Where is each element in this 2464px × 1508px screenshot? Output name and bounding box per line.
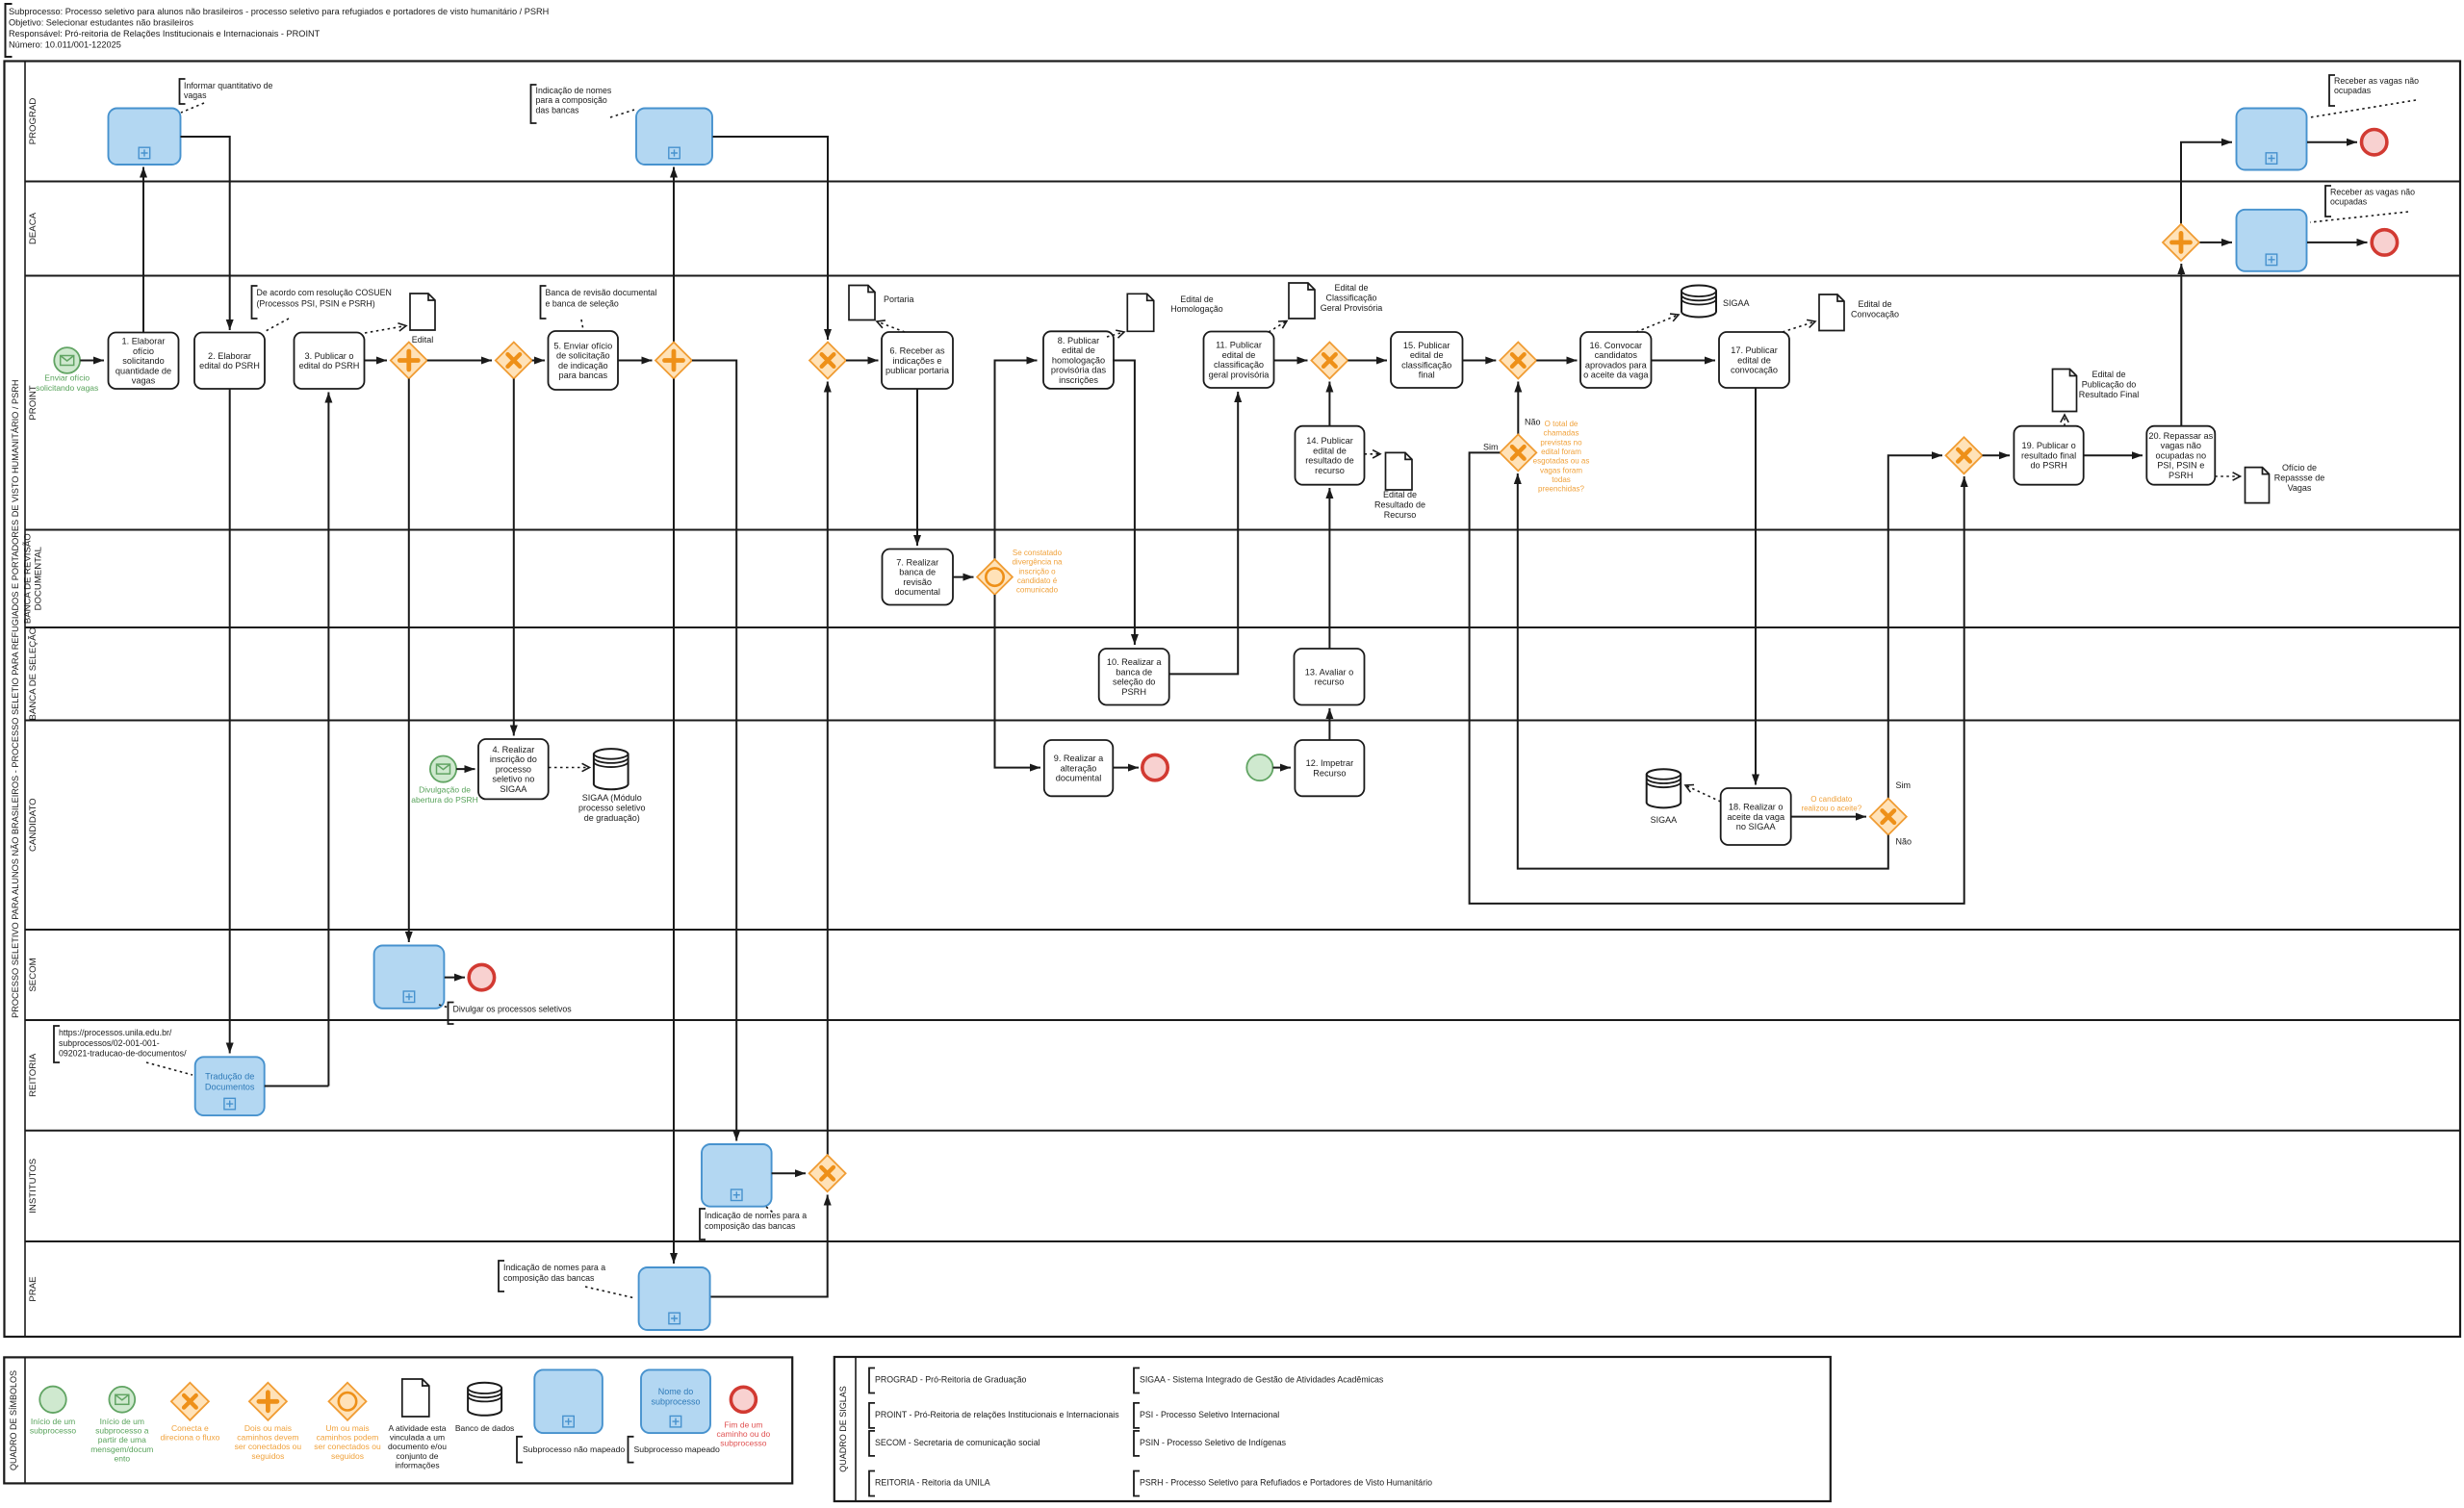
task 1. Elaborar oficio solicitando quantidade de vagas: [109, 333, 179, 390]
task 7. Realizar banca de revisao documental: [883, 550, 954, 605]
gateway X 6 (merge before task 19): [1946, 437, 1983, 473]
gateway inclusive O (divergencia): [977, 559, 1013, 595]
wire: task 10 elbow up into task 11: [1169, 392, 1239, 674]
wire: task 13 up into task 14: [1328, 488, 1330, 649]
document Edital de Homologacao: [1127, 294, 1153, 331]
task 10. Realizar a banca de selecao do PSRH: [1099, 649, 1169, 705]
legend end event: [731, 1387, 756, 1412]
annotation: Indicacao de nomes para a composicao das bancas (PRAE): [499, 1261, 504, 1291]
wire: subprocess 3 to end event: [2307, 141, 2357, 143]
svg-text:9. Realizar aalteraçãodocument: 9. Realizar aalteraçãodocumental: [1054, 754, 1104, 783]
svg-text:3. Publicar oedital do PSRH: 3. Publicar oedital do PSRH: [299, 351, 360, 371]
wire: X 7 Nao down-left-up into X 5: [1518, 473, 1888, 869]
end event DEACA: [2372, 230, 2397, 255]
svg-text:Se constatadodivergência nains: Se constatadodivergência nainscrição oca…: [1012, 549, 1063, 595]
legend gateway X: [171, 1383, 209, 1420]
wire: task 16 to task 17: [1652, 360, 1716, 362]
wire: REITORIA subprocess up into task 3: [327, 393, 329, 1086]
svg-text:DEACA: DEACA: [28, 212, 38, 244]
wire: PROGRAD subprocess 2 right-down to X2 gateway: [713, 137, 829, 340]
gateway X 7 (o candidato realizou o aceite?): [1870, 799, 1907, 835]
sigla entry: REITORIA: [869, 1471, 875, 1496]
wire: task 6 down to task 7: [916, 389, 918, 546]
gateway X 4: [1500, 343, 1536, 379]
svg-text:QUADRO DE SÍMBOLOS: QUADRO DE SÍMBOLOS: [9, 1370, 18, 1470]
wire: task20 up into DEACA plus gateway: [2180, 264, 2182, 426]
wire: plus 2 right-down to INSTITUTOS subprocess: [692, 361, 736, 1141]
association dotted: link annotation to REITORIA subprocess: [146, 1062, 192, 1075]
subprocess PROGRAD 3: receber as vagas nao ocupadas (blue): [2237, 109, 2307, 170]
legend gateway plus: [249, 1383, 287, 1420]
association dotted: annotation to DEACA subprocess: [2310, 212, 2408, 222]
document Portaria: [849, 286, 875, 320]
subprocess PROGRAD: informar quantitativo de vagas (blue): [109, 109, 181, 166]
document Oficio de Repassse de Vagas: [2246, 468, 2270, 503]
svg-text:Fim de umcaminho ou dosubproce: Fim de umcaminho ou dosubprocesso: [717, 1420, 771, 1448]
legend message start event: [109, 1387, 135, 1413]
association dotted: annotation to subprocess: [181, 103, 204, 113]
wire: X 2 to task 6: [846, 360, 879, 362]
svg-text:SIGAA: SIGAA: [1651, 815, 1678, 825]
gateway plus 2 (three-way split): [655, 343, 692, 379]
association dotted: annotation to subprocess 2: [610, 110, 634, 117]
gateway X 1: [496, 343, 532, 379]
wire: task 14 up into X 3: [1328, 382, 1330, 426]
svg-text:QUADRO DE SIGLAS: QUADRO DE SIGLAS: [838, 1386, 848, 1472]
svg-text:Número: 10.011/001-122025: Número: 10.011/001-122025: [9, 40, 121, 50]
document Edital de Resultado de Recurso: [1386, 452, 1413, 490]
svg-text:Responsável: Pró-reitoria de R: Responsável: Pró-reitoria de Relações In…: [9, 29, 321, 38]
svg-text:PROGRAD: PROGRAD: [28, 98, 38, 145]
wire: task1 up to PROGRAD subprocess: [142, 167, 144, 333]
wire: X 6 to task 19: [1983, 454, 2011, 456]
task 6. Receber as indicacoes e publicar portaria: [882, 332, 953, 389]
svg-text:PROINT - Pró-Reitoria de relaç: PROINT - Pró-Reitoria de relações Instit…: [875, 1410, 1119, 1419]
svg-text:SIGAA: SIGAA: [1723, 298, 1750, 308]
start event: Enviar oficio solicitando vagas (message): [54, 347, 80, 373]
task 5. Enviar oficio de solicitacao de indicacao para bancas: [549, 331, 619, 390]
association dotted: PRAE annotation to subprocess: [585, 1287, 635, 1298]
wire: X 5 Sim left-down-right-up into X 6: [1470, 452, 1964, 904]
gateway X 5 (total de chamadas?): [1500, 434, 1536, 471]
subprocess INSTITUTOS (blue): [702, 1144, 772, 1207]
task 11. Publicar edital de classificacao geral provisoria: [1204, 332, 1274, 389]
association dotted: task 8 to Edital de Homologacao: [1107, 332, 1124, 337]
wire: task 18 to X 7: [1791, 816, 1866, 818]
svg-text:11. Publicaredital declassific: 11. Publicaredital declassificaçãogeral …: [1209, 341, 1270, 380]
svg-text:8. Publicaredital dehomologaçã: 8. Publicaredital dehomologaçãoprovisóri…: [1051, 336, 1107, 385]
database SIGAA (PROINT): [1681, 286, 1716, 318]
association dotted: task 18 to SIGAA database: [1685, 785, 1721, 802]
document Edital de Publicacao do Resultado Final: [2053, 370, 2077, 412]
subprocess PROGRAD 2: indicacao de nomes (blue): [636, 109, 712, 166]
wire: X 1 down to task 4: [513, 379, 515, 736]
gateway plus 1 (PROINT split): [391, 343, 427, 379]
header bracket: [6, 4, 13, 57]
legend subprocess not mapped (blue): [534, 1369, 603, 1433]
task 2. Elaborar edital do PSRH: [194, 333, 265, 390]
task 14. Publicar edital de resultado de recurso: [1296, 426, 1365, 485]
wire: X 7 Sim up-right into X 6: [1888, 455, 1942, 798]
association dotted: task 19 up to Edital de Publicacao: [2064, 415, 2066, 426]
wire: task 15 to X 4: [1463, 360, 1497, 362]
gateway X INSTITUTOS: [809, 1155, 846, 1191]
wire: X 4 to task 16: [1536, 360, 1577, 362]
annotation: Banca de revisao documental e banca de selecao: [541, 286, 547, 319]
task 16. Convocar candidatos aprovados para o aceite da vaga: [1580, 332, 1652, 388]
svg-text:Início de umsubprocesso: Início de umsubprocesso: [30, 1417, 76, 1436]
siglas legend box: [834, 1357, 1831, 1501]
svg-text:De acordo com resolução COSUEN: De acordo com resolução COSUEN(Processos…: [257, 288, 392, 309]
svg-text:Portaria: Portaria: [884, 294, 914, 304]
sigla entry: PROINT: [869, 1403, 875, 1428]
svg-text:Subprocesso mapeado: Subprocesso mapeado: [634, 1444, 721, 1454]
legend start event: [39, 1387, 66, 1414]
document Edital de Classificacao Geral Provisoria: [1289, 283, 1315, 319]
annotation: Divulgar os processos seletivos: [449, 1003, 454, 1025]
svg-text:REITORIA - Reitoria da UNILA: REITORIA - Reitoria da UNILA: [875, 1478, 990, 1488]
svg-text:Divulgação deabertura do PSRH: Divulgação deabertura do PSRH: [411, 785, 477, 805]
gateway X 2 (merge before task 6): [809, 343, 846, 379]
svg-text:Banco de dados: Banco de dados: [455, 1423, 514, 1433]
start event message: Divulgacao de abertura do PSRH: [430, 756, 456, 782]
svg-text:SECOM: SECOM: [28, 958, 38, 991]
annotation: Informar quantitativo de vagas: [180, 79, 186, 104]
wire: plus 1 to X gateway 1: [427, 360, 492, 362]
sigla entry: SECOM: [869, 1431, 875, 1456]
task 13. Avaliar o recurso: [1295, 649, 1365, 705]
association dotted: task 14 to Edital de Resultado de Recurso: [1365, 453, 1381, 455]
svg-text:Edital: Edital: [412, 335, 434, 345]
association dotted: SECOM subprocess to annotation: [439, 1005, 449, 1008]
document Edital de Convocacao: [1819, 294, 1844, 331]
svg-text:Sim: Sim: [1896, 780, 1912, 790]
wire: PROGRAD subprocess right-down to task2: [181, 137, 230, 330]
database SIGAA (CANDIDATO): [1647, 769, 1681, 807]
svg-text:SIGAA - Sistema Integrado de G: SIGAA - Sistema Integrado de Gestão de A…: [1140, 1375, 1384, 1385]
subprocess REITORIA: Traducao de Documentos (blue): [195, 1057, 265, 1115]
sigla entry: PSIN: [1134, 1431, 1140, 1456]
wire: PRAE subprocess right-up into X gateway: [710, 1195, 828, 1297]
wire: plus 1 down to SECOM subprocess: [408, 379, 410, 943]
wire: task 8 right-down to task 10: [1113, 361, 1135, 646]
annotation: https processos.unila link: [54, 1026, 60, 1062]
association dotted: task 3 to Edital document: [365, 326, 406, 334]
document Edital: [410, 294, 435, 330]
association dotted: annotation to subprocess 3: [2310, 100, 2416, 117]
wire: task 9 to end event: [1113, 767, 1139, 769]
legend document: [402, 1379, 429, 1417]
svg-text:PROCESSO SELETIVO PARA ALUNOS: PROCESSO SELETIVO PARA ALUNOS NÃO BRASIL…: [11, 380, 20, 1018]
svg-text:17. Publicaredital deconvocaçã: 17. Publicaredital deconvocação: [1731, 345, 1778, 375]
wire: inclusive gateway down-right to task 9: [995, 595, 1041, 768]
annotation: Indicacao de nomes para a composicao das bancas (INSTITUTOS): [700, 1209, 706, 1240]
svg-text:Tradução deDocumentos: Tradução deDocumentos: [205, 1072, 255, 1092]
wire: inclusive gateway up-right into task 8: [995, 361, 1038, 560]
sigla entry: PSI: [1134, 1403, 1140, 1428]
svg-text:SIGAA (Móduloprocesso seletivo: SIGAA (Móduloprocesso seletivode graduaç…: [578, 793, 646, 823]
wire: plus gateway 2 up to PROGRAD subprocess 2: [673, 167, 675, 343]
annotation: Receber as vagas nao ocupadas (DEACA): [2325, 186, 2331, 217]
svg-text:INSTITUTOS: INSTITUTOS: [28, 1159, 38, 1214]
svg-text:PRAE: PRAE: [28, 1276, 38, 1301]
wire: task 5 to plus gateway 2: [618, 360, 653, 362]
wire: task 11 to X 3: [1274, 360, 1308, 362]
wire: INSTITUTOS X gateway up into X 2: [827, 382, 829, 1156]
start event plain (recurso): [1246, 754, 1272, 780]
legend gateway inclusive: [329, 1383, 367, 1420]
task 17. Publicar edital de convocacao: [1719, 332, 1789, 388]
svg-text:Indicação de nomes para acompo: Indicação de nomes para acomposição das …: [503, 1263, 605, 1283]
task 20. Repassar as vagas nao ocupadas no PSI, PSIN e PSRH: [2146, 426, 2215, 485]
svg-text:CANDIDATO: CANDIDATO: [28, 798, 38, 852]
svg-text:Sim: Sim: [1483, 443, 1499, 452]
wire: task 2 down to REITORIA subprocess: [229, 389, 231, 1054]
svg-text:REITORIA: REITORIA: [28, 1053, 38, 1097]
subprocess PRAE (blue): [639, 1267, 710, 1330]
association dotted: task 17 to Edital de Convocacao: [1783, 321, 1815, 332]
svg-text:Objetivo: Selecionar estudante: Objetivo: Selecionar estudantes não bras…: [9, 18, 193, 28]
svg-text:BANCA DE SELEÇÃO: BANCA DE SELEÇÃO: [28, 627, 38, 721]
svg-text:Indicação de nomes para acompo: Indicação de nomes para acomposição das …: [705, 1211, 807, 1231]
association dotted: annotation to task 5: [581, 319, 583, 330]
wire: task 3 to plus gateway 1: [365, 360, 388, 362]
task 3. Publicar o edital do PSRH: [295, 333, 365, 390]
wire: X 5 Nao up into X 4: [1517, 382, 1519, 435]
annotation: Indicacao de nomes para a composicao das bancas (PROGRAD): [531, 85, 537, 123]
svg-text:Não: Não: [1525, 418, 1541, 427]
subprocess DEACA: receber as vagas nao ocupadas (blue): [2237, 210, 2307, 271]
wire: REITORIA subprocess right-up (to task 3): [265, 1086, 329, 1087]
wire: start to task 12: [1273, 767, 1292, 769]
gateway X 3: [1311, 343, 1347, 379]
wire: X 3 to task 15: [1347, 360, 1387, 362]
task 18. Realizar o aceite da vaga no SIGAA: [1721, 788, 1791, 845]
svg-text:16. Convocarcandidatosaprovado: 16. Convocarcandidatosaprovados parao ac…: [1583, 341, 1649, 380]
wire: task 7 to inclusive gateway: [953, 576, 974, 578]
svg-text:Subprocesso: Processo seletivo: Subprocesso: Processo seletivo para alun…: [9, 7, 549, 16]
svg-text:Subprocesso não mapeado: Subprocesso não mapeado: [523, 1444, 625, 1454]
gateway plus DEACA: [2163, 224, 2199, 261]
task 12. Impetrar Recurso: [1295, 740, 1364, 796]
svg-text:A atividade estavinculada a um: A atividade estavinculada a umdocumento …: [388, 1423, 447, 1470]
association dotted: INSTITUTOS subprocess to annotation: [766, 1207, 773, 1213]
wire: SECOM subprocess to end event: [445, 977, 465, 979]
association dotted: task 6 to Portaria document: [877, 321, 905, 332]
association dotted: task 16 to SIGAA: [1636, 315, 1679, 332]
wire: DEACA plus to DEACA subprocess: [2200, 242, 2233, 243]
svg-text:BANCA DE REVISÃO: BANCA DE REVISÃO: [23, 533, 34, 624]
association dotted: task 11 to Edital de Classificacao: [1269, 321, 1287, 333]
association dotted: task 20 to Oficio de Repassse: [2215, 475, 2240, 477]
svg-text:PROGRAD - Pró-Reitoria de Grad: PROGRAD - Pró-Reitoria de Graduação: [875, 1375, 1027, 1385]
svg-text:6. Receber asindicações epubli: 6. Receber asindicações epublicar portar…: [885, 346, 950, 376]
wire: X 1 to task 5: [532, 360, 545, 362]
task 9. Realizar a alteracao documental: [1044, 740, 1114, 796]
sigla entry: PROGRAD: [869, 1368, 875, 1393]
database SIGAA (Modulo processo seletivo de graduacao): [594, 749, 629, 789]
svg-text:DOCUMENTAL: DOCUMENTAL: [34, 546, 44, 610]
svg-text:Não: Não: [1896, 837, 1912, 847]
sigla entry: PSRH: [1134, 1471, 1140, 1496]
association dotted: task 4 to SIGAA database: [549, 767, 590, 769]
svg-text:PSIN - Processo Seletivo de In: PSIN - Processo Seletivo de Indígenas: [1140, 1438, 1287, 1447]
legend database: [468, 1383, 501, 1416]
wire: task 12 up to task 13: [1328, 708, 1330, 740]
task 8. Publicar edital de homologacao provisoria das inscricoes: [1043, 331, 1114, 389]
svg-text:2. Elaboraredital do PSRH: 2. Elaboraredital do PSRH: [199, 351, 260, 371]
task 4. Realizar inscricao do processo seletivo no SIGAA: [478, 739, 549, 799]
legend subprocess mapped (blue): [641, 1369, 710, 1433]
lane label separator: [24, 62, 26, 1338]
sigla entry: SIGAA: [1134, 1368, 1140, 1393]
end event after task 9: [1142, 754, 1168, 780]
annotation: De acordo com resolucao COSUEN: [252, 286, 258, 319]
wire: INSTITUTOS subprocess to X gateway: [772, 1172, 806, 1174]
wire: task 19 to task 20: [2084, 454, 2143, 456]
wire: DEACA plus gateway up-right into subprocess 3: [2181, 142, 2232, 224]
task 19. Publicar o resultado final do PSRH: [2014, 426, 2083, 485]
svg-text:5. Enviar ofíciode solicitação: 5. Enviar ofíciode solicitaçãode indicaç…: [553, 341, 612, 380]
wire: start to task 1: [80, 360, 104, 362]
wire: task 17 down to task 18: [1755, 388, 1757, 785]
svg-text:PSI - Processo Seletivo Intern: PSI - Processo Seletivo Internacional: [1140, 1410, 1279, 1419]
end event PROGRAD: [2362, 130, 2387, 155]
annotation: Receber as vagas nao ocupadas (PROGRAD): [2329, 75, 2335, 106]
svg-text:SECOM - Secretaria de comunica: SECOM - Secretaria de comunicação social: [875, 1438, 1040, 1447]
svg-text:Enviar ofíciosolicitando vagas: Enviar ofíciosolicitando vagas: [36, 373, 98, 393]
association dotted: COSUEN annotation to task 2: [266, 319, 289, 331]
subprocess SECOM (blue): [374, 946, 445, 1009]
lane boundary lines: [25, 181, 2460, 183]
task 15. Publicar edital de classificacao final: [1391, 332, 1463, 388]
wire: plus 2 down to PRAE subprocess: [673, 379, 675, 1265]
svg-text:Nome dosubprocesso: Nome dosubprocesso: [651, 1387, 700, 1406]
end event SECOM: [469, 964, 494, 989]
svg-text:Divulgar os processos seletivo: Divulgar os processos seletivos: [453, 1005, 573, 1014]
wire: start to task 4: [456, 768, 475, 770]
symbols legend box: [4, 1357, 792, 1483]
svg-text:PSRH - Processo Seletivo para: PSRH - Processo Seletivo para Refufiados…: [1140, 1478, 1432, 1488]
wire: DEACA subprocess to end event: [2307, 242, 2368, 243]
